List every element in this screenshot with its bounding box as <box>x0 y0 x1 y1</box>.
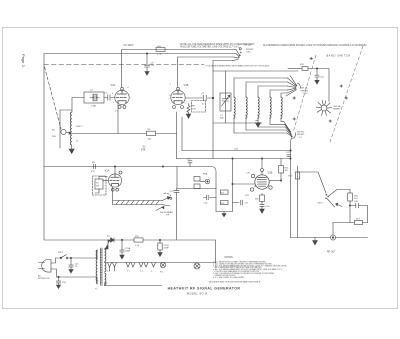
svg-text:NOTES: NOTES <box>225 256 234 259</box>
heater V1 <box>126 263 135 268</box>
wire dashed gang to pot <box>45 67 62 129</box>
svg-text:1M: 1M <box>96 186 99 188</box>
tube V1B <box>170 83 189 109</box>
switch SW1B front cluster <box>289 129 305 138</box>
switch SW1 on-off <box>51 252 97 263</box>
wire V2A plate <box>114 166 115 174</box>
wire V2B output <box>269 180 281 181</box>
svg-text:SW 1B: SW 1B <box>297 132 304 134</box>
capacitor C13 drop <box>170 189 180 240</box>
wire screen bus <box>177 158 291 159</box>
wire right vertical rail <box>297 166 299 238</box>
wire V2B plate to B+ <box>261 159 263 169</box>
svg-text:* RF: * RF <box>165 214 170 216</box>
resistor R26 drop <box>158 239 170 256</box>
wire osc feed line <box>213 61 233 72</box>
capacitor C10 <box>187 158 193 166</box>
wire V1 heater U <box>181 117 183 151</box>
potentiometer R1 <box>52 110 72 148</box>
ground below L1 <box>69 145 74 153</box>
capacitor C30 <box>349 201 367 223</box>
wire V2A grid <box>103 180 109 182</box>
jack RF OUT <box>327 235 336 254</box>
svg-text:INTERLOCK: INTERLOCK <box>38 278 51 280</box>
dashed gang diagonal A <box>294 55 317 131</box>
switch SW4 <box>318 190 351 208</box>
wire V1A plate line <box>122 50 237 88</box>
svg-text:2: 2 <box>151 271 152 273</box>
page number label <box>21 54 26 67</box>
heater pin labels <box>107 271 163 274</box>
wire V1B cathode down <box>176 112 178 159</box>
wire shielded cable pair <box>113 187 163 205</box>
capacitor C9 output <box>185 93 214 106</box>
wire coil top staircase <box>234 78 288 97</box>
title <box>168 286 241 295</box>
wire secondary bottom <box>105 283 107 286</box>
wire B+ mid bus <box>182 148 291 151</box>
diode D1 <box>105 236 115 250</box>
switch SW2B rear cluster <box>156 193 173 216</box>
svg-text:PL1: PL1 <box>160 272 163 274</box>
grid network R7 dashed box <box>93 176 108 195</box>
capacitor C21A <box>120 239 131 259</box>
heater V4 <box>152 263 156 268</box>
tube V2A <box>105 169 123 192</box>
heater V2 <box>139 263 148 268</box>
svg-text:FRONT: FRONT <box>297 134 305 136</box>
switch SW2A label <box>244 44 254 54</box>
svg-text:SW 4: SW 4 <box>318 203 324 205</box>
ladder rails <box>216 159 233 212</box>
svg-text:FRONT: FRONT <box>301 90 309 92</box>
wire coil bottom staircase <box>234 118 292 136</box>
svg-text:REAR: REAR <box>334 108 340 111</box>
variable capacitor C1 <box>220 71 231 123</box>
pilot lamp PL2 <box>194 263 200 270</box>
power rail top <box>114 240 216 263</box>
capacitor C23 on bus <box>286 152 291 159</box>
tube V1A <box>111 83 130 113</box>
wire heater rail <box>105 262 216 264</box>
notes block <box>208 256 287 283</box>
capacitor C17 <box>233 200 250 205</box>
wire to SW4 <box>298 172 327 193</box>
crystal box X1 <box>84 90 104 108</box>
resistor R21 bottom <box>333 218 368 224</box>
wire left frame <box>44 54 114 240</box>
inductor L3 <box>246 97 247 118</box>
svg-text:5000 T: 5000 T <box>76 126 83 128</box>
node V1 140V <box>124 43 134 47</box>
ground ladder <box>222 212 226 217</box>
svg-text:AC: AC <box>38 275 41 278</box>
svg-text:SW 2A: SW 2A <box>244 44 251 47</box>
wire V1B plate line <box>178 57 235 87</box>
svg-text:V1A: V1A <box>111 83 116 87</box>
resistor R20 with ground <box>255 194 270 214</box>
wire heater return <box>105 267 162 286</box>
svg-text:1: 1 <box>112 93 113 95</box>
resistor R22 <box>348 190 359 223</box>
svg-text:3 4: 3 4 <box>140 271 143 273</box>
svg-text:* INDICATES SWITCH POSITION WI: * INDICATES SWITCH POSITION WITH BAND SW… <box>208 281 261 284</box>
wire dashed gang line horizontal <box>44 64 204 66</box>
pin labels V1A <box>112 93 130 105</box>
wire plug bottom <box>51 269 97 277</box>
resistor R24 <box>289 172 300 179</box>
capacitor C25 with ground <box>69 257 79 273</box>
capacitor C26 with ground <box>56 276 66 288</box>
svg-text:4 5: 4 5 <box>127 271 130 273</box>
tube V2B <box>245 169 273 198</box>
inductor L4 <box>258 97 259 118</box>
wire bottom right rail <box>291 237 368 239</box>
note line above coil box <box>205 64 269 67</box>
svg-text:MODEL SG-8: MODEL SG-8 <box>187 291 208 295</box>
svg-text:20MF: 20MF <box>164 248 170 250</box>
svg-text:V2B: V2B <box>268 171 273 175</box>
oscillator coil box <box>213 71 298 159</box>
svg-text:SW 2: SW 2 <box>58 252 64 254</box>
svg-text:Page 3: Page 3 <box>21 54 26 67</box>
svg-text:SW 2B REAR: SW 2B REAR <box>160 211 173 214</box>
svg-text:V1B: V1B <box>184 83 189 87</box>
resistor R18 <box>221 201 229 205</box>
transformer T1 <box>95 248 106 291</box>
svg-text:XTAL: XTAL <box>91 105 97 108</box>
svg-text:VACUUM TUBE VOLTMETER. LINE VO: VACUUM TUBE VOLTMETER. LINE VOLTAGE 117 … <box>180 46 240 49</box>
svg-text:10K: 10K <box>192 109 196 111</box>
inductor L6 <box>281 97 282 118</box>
audio output box <box>177 167 216 189</box>
wire AF bus <box>44 166 200 167</box>
svg-text:* OSC: * OSC <box>302 93 309 95</box>
wire V2B grid <box>232 183 255 184</box>
wire SW1B to lower bus <box>291 138 292 238</box>
inductor L5 <box>270 97 271 118</box>
dashed gang diagonal B <box>330 46 363 142</box>
svg-text:* VOLTAGES MEASURED WITH BAND: * VOLTAGES MEASURED WITH BAND SWITCH IN … <box>205 64 269 67</box>
capacitor C8 with ground <box>145 53 155 75</box>
resistor R25 <box>134 236 143 247</box>
svg-text:OSC: OSC <box>246 51 251 53</box>
heater V3 <box>108 263 117 268</box>
resistor R5 on tap line <box>147 129 156 140</box>
pin labels V1B <box>170 95 186 105</box>
svg-text:RF OUT: RF OUT <box>327 252 336 254</box>
switch SW2A rotor convergence <box>233 48 242 61</box>
svg-text:SW 1A: SW 1A <box>301 87 308 90</box>
note line top <box>180 43 367 48</box>
resistor R6 on AF bus <box>91 162 96 173</box>
wire cathode tap line <box>72 133 177 135</box>
svg-text:2: 2 <box>129 95 130 97</box>
resistor R8 with ground <box>186 101 205 119</box>
svg-text:HEATHKIT RF SIGNAL GENERATO: HEATHKIT RF SIGNAL GENERATOR <box>168 286 241 290</box>
svg-text:6T8: 6T8 <box>141 148 146 151</box>
svg-text:BAND SWITCH: BAND SWITCH <box>327 54 351 58</box>
pilot lamp PL1 <box>160 262 165 267</box>
svg-text:V2A: V2A <box>105 169 110 173</box>
wafer contact crosses <box>293 57 347 122</box>
capacitor C4 grid <box>104 92 115 100</box>
wire xtal to coil <box>72 98 84 113</box>
svg-text:25K: 25K <box>52 136 56 138</box>
wire top bus B+ <box>44 53 236 55</box>
svg-text:5: 5 <box>185 103 186 105</box>
svg-text:2.2K: 2.2K <box>135 245 140 247</box>
svg-text:20MF: 20MF <box>125 251 131 253</box>
resistor R17 <box>221 190 229 194</box>
svg-text:C21A: C21A <box>125 247 131 250</box>
switch SW1A front fan <box>286 76 309 97</box>
svg-text:6. K = 1000 OHMS. M = MEGOHMS: 6. K = 1000 OHMS. M = MEGOHMS. <box>213 277 245 279</box>
svg-text:1M: 1M <box>285 170 288 172</box>
capacitor C28 cluster <box>288 64 329 102</box>
inductor L2 band A <box>234 97 235 118</box>
resistor R16 <box>279 159 290 181</box>
plug P1 <box>38 260 51 281</box>
node V2 6T8 <box>141 146 146 152</box>
svg-text:ALL READINGS TAKEN FROM SOCKET: ALL READINGS TAKEN FROM SOCKET LUGS TO C… <box>263 44 367 47</box>
ground bottom rail <box>313 238 318 245</box>
band switch label <box>327 54 351 58</box>
wire V1A cathode down <box>117 105 119 134</box>
ground at coil common <box>255 121 260 128</box>
wire output drop <box>332 223 334 235</box>
svg-text:V1 140V: V1 140V <box>124 43 134 47</box>
inductor L1 osc coil <box>70 112 83 145</box>
svg-text:R9A: R9A <box>203 173 208 176</box>
resistor R9 in box <box>194 177 200 189</box>
jack J1 <box>200 179 210 184</box>
capacitor C16 <box>203 195 216 204</box>
svg-text:SW 1A: SW 1A <box>334 105 341 108</box>
resistor R10 <box>156 46 165 56</box>
svg-text:7: 7 <box>113 103 114 105</box>
switch SW1A rear starburst <box>316 100 341 115</box>
svg-text:4.7K: 4.7K <box>157 54 162 56</box>
svg-text:8: 8 <box>170 95 171 97</box>
